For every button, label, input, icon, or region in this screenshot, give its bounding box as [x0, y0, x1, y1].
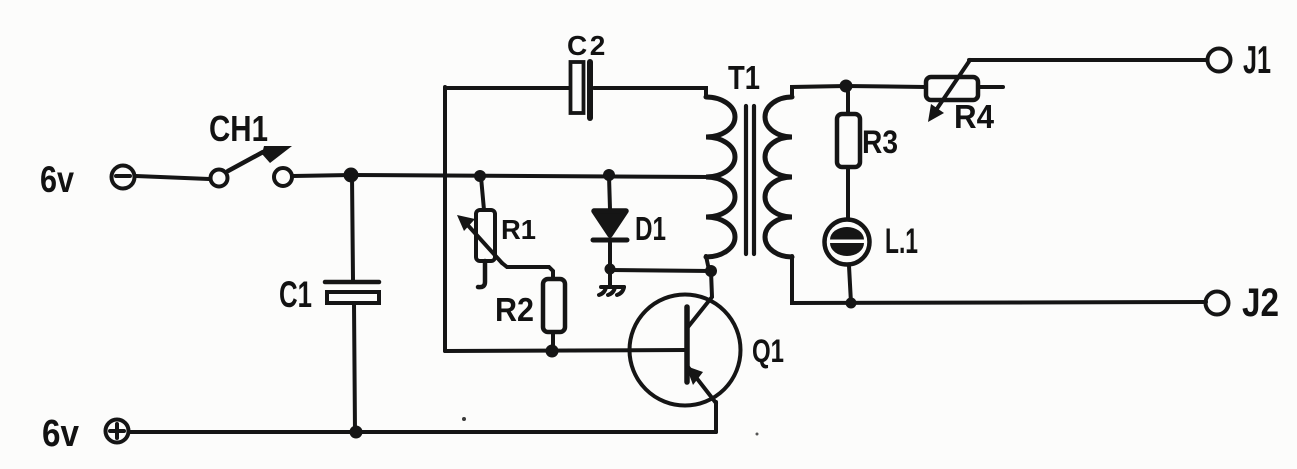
svg-text:6v: 6v — [42, 413, 79, 455]
wire collector lead — [688, 271, 712, 327]
junction node bottom rail C1 — [350, 426, 363, 439]
wire switch to main rail — [293, 175, 351, 176]
wire secondary bottom to J2 — [792, 256, 1206, 303]
wire C2 to T1 primary top — [594, 88, 706, 97]
wire T1 primary bottom lead — [706, 256, 709, 270]
transformer T1 secondary winding — [765, 97, 792, 257]
wire top right to R4 — [846, 86, 926, 87]
lamp L.1 — [825, 220, 870, 304]
terminal 6v plus — [106, 420, 129, 443]
svg-text:CH1: CH1 — [209, 108, 268, 149]
svg-text:R3: R3 — [862, 124, 898, 160]
wire C1 bottom lead — [354, 303, 355, 432]
svg-text:6v: 6v — [40, 159, 74, 200]
junction node R3 top — [840, 80, 853, 93]
terminal J1 — [1208, 49, 1231, 72]
ground — [599, 269, 624, 295]
svg-text:C2: C2 — [567, 30, 608, 61]
svg-text:D1: D1 — [635, 210, 666, 247]
wire bottom rail — [130, 430, 716, 434]
wire terminal to switch — [136, 176, 209, 179]
resistor R2 — [543, 279, 565, 332]
transformer T1 primary winding — [706, 97, 735, 257]
wire D1 to collector node — [610, 270, 711, 271]
junction node lamp bottom — [846, 298, 857, 309]
wire R2 bottom lead — [551, 332, 555, 351]
junction node collector — [705, 265, 717, 277]
svg-text:R2: R2 — [495, 291, 534, 328]
wire R1 wiper to R2 — [502, 263, 553, 279]
wire C1 top lead — [352, 175, 353, 280]
wire R4 wiper to J1 — [969, 58, 1206, 62]
svg-text:R1: R1 — [501, 214, 536, 245]
wire main horizontal rail — [351, 175, 709, 177]
junction node D1 bottom — [605, 264, 616, 275]
wire left feedback branch vertical — [443, 87, 447, 351]
terminal J2 — [1206, 292, 1229, 315]
svg-text:J1: J1 — [1243, 39, 1271, 82]
junction node R1 top — [474, 170, 486, 182]
junction node base wire — [546, 345, 559, 358]
diode D1 — [593, 176, 627, 269]
transformer core — [746, 106, 754, 254]
capacitor C1 — [325, 282, 379, 303]
speck artifacts — [462, 417, 466, 421]
switch CH1 — [211, 146, 293, 187]
svg-text:C1: C1 — [279, 274, 312, 315]
wire top branch to C2 — [445, 86, 570, 90]
wire base rail — [445, 350, 686, 351]
trimmer R1 — [457, 177, 502, 287]
svg-text:J2: J2 — [1242, 281, 1279, 325]
terminal 6v minus — [112, 166, 135, 189]
resistor R3 — [837, 92, 860, 219]
junction node C1 top — [344, 168, 359, 183]
wire secondary top lead — [792, 86, 846, 97]
capacitor C2 — [571, 62, 591, 118]
transistor Q1 — [630, 295, 741, 406]
svg-text:R4: R4 — [954, 98, 995, 135]
svg-text:Q1: Q1 — [752, 333, 784, 369]
rheostat R4 — [926, 60, 1003, 122]
wire emitter lead to bottom rail — [714, 402, 718, 432]
svg-text:L.1: L.1 — [885, 222, 918, 261]
junction node D1 anode — [603, 169, 615, 181]
svg-text:T1: T1 — [728, 59, 760, 96]
